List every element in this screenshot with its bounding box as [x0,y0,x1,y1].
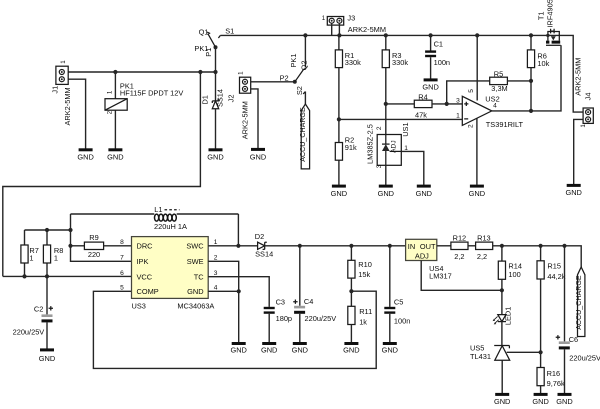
capacitor C5 100n [384,308,395,313]
node junction output-R6 [529,109,533,113]
svg-text:SWE: SWE [187,257,204,266]
wire R1 bottom to R2 [338,68,340,143]
svg-text:1: 1 [456,112,460,119]
svg-text:C5: C5 [394,297,403,306]
svg-text:3,3M: 3,3M [491,84,507,93]
svg-text:ARK2-5MM: ARK2-5MM [63,87,72,125]
svg-text:OUT: OUT [420,242,436,251]
svg-text:T1: T1 [537,11,546,20]
wire R10 top [350,246,352,260]
svg-text:R16: R16 [547,369,561,378]
ground C4 [292,344,308,355]
ground US5 [494,394,510,406]
svg-text:DRC: DRC [137,242,154,251]
svg-text:GND: GND [77,152,93,161]
wire C1 top [430,35,432,50]
svg-text:ACCU_CHARGE: ACCU_CHARGE [299,107,307,162]
wire R2 bottom to GND [338,160,340,185]
svg-text:J2: J2 [226,94,235,102]
connector J2 [240,77,251,93]
svg-text:GND: GND [187,287,203,296]
dashed marker of L1 [165,209,180,211]
connector J1 [56,66,68,84]
svg-text:GND: GND [331,189,347,198]
wire R15 bottom to R16 [540,279,542,368]
node junction R10-R11-feedback [349,289,353,293]
capacitor C2 220u/25V [42,314,53,322]
resistor R1 [335,50,342,68]
resistor R15 [537,261,544,279]
node junction R3-bus [384,33,388,37]
wire R11 bottom to GND [350,325,352,343]
wire US5 ref to R15-R16 [507,351,541,353]
wire R7 stubs [24,230,26,276]
LED LED1 [493,315,506,325]
ground C6 [556,394,572,406]
wire C6 bottom to GND [564,349,566,393]
wire D1 cathode [215,72,217,101]
resistor R11 [348,306,355,324]
node P1 pivot [214,45,218,49]
wire R10 bottom to R11 [350,278,352,306]
svg-text:TL431: TL431 [470,352,491,361]
svg-text:220u/25V: 220u/25V [569,354,600,363]
contact Q1 tick [207,32,210,34]
svg-text:100: 100 [508,270,520,279]
svg-text:VCC: VCC [137,273,153,282]
svg-text:47k: 47k [415,111,427,120]
diode D1 SS14 [212,99,218,109]
ground J2 [250,149,266,161]
wire R12-R13 [468,245,476,247]
capacitor C6 220u/25V [559,341,570,349]
ground R16 [532,394,548,406]
inductor L1 220uH 1A [155,214,177,221]
wire R9 right to DRC [104,245,132,247]
svg-text:2,2: 2,2 [477,252,487,261]
svg-text:LED1: LED1 [503,307,512,326]
svg-text:44,2k: 44,2k [547,272,565,281]
diode D2 SS14 [258,242,267,249]
wire op-amp power pin 5 [476,35,478,100]
node junction D2 line to R10 [349,244,353,248]
svg-text:L1: L1 [154,205,162,214]
wire J2 pin1 to P2 [251,81,295,83]
relay coil PK1 [105,99,127,111]
svg-text:6: 6 [120,270,124,277]
wire VCC rail to US3 [3,275,132,277]
wire C6 top [564,246,566,342]
wire R9 left [71,245,85,247]
svg-text:100n: 100n [394,316,410,325]
node junction bus to VCC feed [198,70,202,74]
resistor R8 [43,245,50,263]
svg-text:COMP: COMP [137,287,159,296]
wire R5 left loop [447,81,490,104]
svg-text:ACCU_CHARGE: ACCU_CHARGE [575,275,583,330]
switch arm P2 [295,70,304,82]
wire SWE down [208,261,239,342]
svg-text:SWC: SWC [186,242,204,251]
svg-text:GND: GND [250,152,266,161]
wire R15 top [540,246,542,261]
contact S1 tick [218,35,220,38]
svg-text:J1: J1 [50,86,59,94]
svg-text:US2: US2 [485,95,499,104]
svg-text:C3: C3 [276,297,285,306]
node junction C1-bus [429,33,433,37]
svg-text:C1: C1 [434,40,443,49]
svg-text:TC: TC [194,273,205,282]
node junction R8-C2-VCC rail [45,274,49,278]
wire C2 bottom to GND [46,322,48,348]
svg-text:US1: US1 [401,122,410,136]
svg-text:C4: C4 [304,297,313,306]
svg-text:ADJ: ADJ [390,140,397,152]
svg-text:S1: S1 [225,27,234,36]
svg-text:SS14: SS14 [255,249,273,258]
svg-text:GND: GND [494,397,510,406]
wire US4 ADJ down [421,261,502,291]
polarity plus of C6 [556,335,560,339]
svg-text:5: 5 [120,285,124,292]
ground J4 [565,185,581,197]
resistor R2 [335,143,342,161]
svg-text:TS391RILT: TS391RILT [486,120,524,129]
svg-text:GND: GND [532,397,548,406]
svg-text:IRF4905: IRF4905 [546,0,555,27]
op-amp US2 TS391RILT [462,96,492,125]
node junction bus-coil [113,70,117,74]
wire coil PK1 top [114,72,116,99]
node junction rail-R15 [539,244,543,248]
node junction bus-P1 [213,70,217,74]
wire op-amp output [492,45,561,111]
wire Q2 terminal to bus [304,35,306,67]
svg-text:D2: D2 [255,232,264,241]
wire J4 pin1 to GND [574,119,583,184]
svg-text:GND: GND [556,397,572,406]
node junction L1 left leg to R9 [68,244,72,248]
svg-text:P1: P1 [204,48,213,57]
svg-text:R10: R10 [358,260,372,269]
wire R5 right to R6 [507,80,531,82]
svg-text:Q1: Q1 [199,27,209,36]
wire J1 pin2 to GND [68,79,85,148]
svg-text:LM385Z-2.5: LM385Z-2.5 [366,124,375,164]
wire R8 stubs [46,230,48,276]
wire LED1 cathode to US5 [501,321,503,345]
wire SWC to D2 [208,245,257,247]
svg-text:SS14: SS14 [216,89,225,107]
svg-text:1: 1 [60,60,67,64]
svg-text:GND: GND [422,82,438,91]
polarity plus of C2 [49,306,53,310]
svg-text:LM317: LM317 [429,272,452,281]
ground D1 [207,150,223,162]
svg-text:ARK2-5MM: ARK2-5MM [240,101,249,139]
wire US5 anode to GND [501,360,503,393]
node junction L1 right leg to SWC [236,244,240,248]
wire C3 bottom to GND [268,314,270,343]
wire S2 to flag [304,92,306,105]
ground US1 pin3 [378,186,394,198]
node junction D2 line to C4 [298,244,302,248]
resistor R14 [498,261,505,279]
svg-text:GND: GND [292,346,308,355]
wire output rail to flag [493,246,582,267]
wire L1 rail [71,214,239,246]
ground C5 [382,344,398,355]
wire IPK from L1 leg [71,246,132,261]
svg-text:D1: D1 [200,95,209,104]
capacitor C4 220u/25V [294,306,305,314]
ground C3 [261,344,277,355]
svg-text:220u/25V: 220u/25V [305,314,337,323]
wire D2 cathode to US4 IN [265,245,406,247]
wire J1 pin1 to top bus [68,71,215,73]
node P2 pivot [293,80,297,84]
svg-text:J4: J4 [584,92,593,100]
svg-text:GND: GND [343,346,359,355]
capacitor C1 [425,52,436,56]
wire C5 bottom to GND [389,314,391,343]
svg-text:5: 5 [468,89,475,93]
net flag ACCU_CHARGE upper [299,104,310,169]
wire op-amp pin 2 to GND [476,113,478,185]
regulator US1 LM385Z-2.5 [377,135,401,166]
wire US1 pin3 to GND [385,165,387,185]
resistor R10 [348,260,355,278]
svg-text:ADJ: ADJ [415,252,429,261]
wire TC to C3 [208,277,269,307]
svg-text:IN: IN [408,242,415,251]
resistor R13 [476,242,493,249]
node junction D2 line to C5 [388,244,392,248]
svg-text:GND: GND [565,188,581,197]
svg-text:GND: GND [39,354,55,363]
regulator US4 LM317 body [406,239,437,260]
node junction R7-VCC rail [22,274,26,278]
svg-text:Q2: Q2 [300,61,309,71]
svg-text:S2: S2 [295,86,304,95]
svg-text:P2: P2 [280,74,289,83]
svg-text:91k: 91k [345,143,357,152]
svg-text:IPK: IPK [137,257,149,266]
svg-text:2,2: 2,2 [454,252,464,261]
svg-text:GND: GND [416,189,432,198]
svg-text:GND: GND [107,152,123,161]
svg-text:ARK2-5MM: ARK2-5MM [573,58,582,96]
wire J3 pin1 stub [331,23,333,35]
ground US1 pin1 [416,186,432,198]
ground R11 [343,344,359,355]
node junction J3-R1 on bus [337,33,341,37]
wire C4 bottom to GND [299,314,301,343]
node junction SWE-GND pin [237,289,241,293]
svg-text:C6: C6 [569,335,578,344]
svg-text:GND: GND [382,346,398,355]
svg-text:GND: GND [261,346,277,355]
node junction rail-C6 [562,244,566,248]
svg-text:8: 8 [120,239,124,246]
IC US3 MC34063A body [132,237,209,299]
svg-text:US3: US3 [132,301,146,310]
resistor R7 [21,245,28,263]
node junction R1-R2-inverting [337,117,341,121]
wire R4 right to noninverting input [432,103,463,105]
node junction R8 top [45,228,49,232]
wire R1 top [338,35,340,50]
resistor R4 [414,100,432,107]
wire S1 bus to T1 and J4 pin2 [220,35,583,112]
resistor R12 [451,242,468,249]
wire VCC feed down-left-down [3,72,201,276]
svg-text:330k: 330k [345,58,361,67]
connector J3 [327,17,343,26]
svg-text:GND: GND [230,346,246,355]
node junction R15-R16-ref [539,350,543,354]
node junction R6-bus [529,33,533,37]
polarity plus of C4 [293,300,297,304]
resistor R5 [490,77,508,84]
wire LED1 top [501,290,503,315]
svg-text:PK1: PK1 [289,54,298,68]
svg-text:GND: GND [207,152,223,161]
node junction rail-L1 leg [68,228,72,232]
resistor R6 [527,50,534,68]
wire C2 top [46,276,48,314]
svg-text:7: 7 [120,255,124,262]
svg-text:220uH 1A: 220uH 1A [154,222,187,231]
svg-text:220u/25V: 220u/25V [13,328,45,337]
svg-text:2: 2 [376,126,383,130]
ground PK1 coil [107,150,123,162]
wire C1 bottom to GND [430,57,432,78]
svg-text:ARK2-5MM: ARK2-5MM [348,25,386,34]
svg-text:R9: R9 [89,233,98,242]
node junction ADJ-R14-LED [500,288,504,292]
node junction Q2-bus [303,33,307,37]
svg-text:330k: 330k [392,58,408,67]
connector J4 [583,108,593,123]
wire R16 bottom to GND [540,386,542,394]
wire J2 pin2 to GND [251,89,258,148]
svg-text:1: 1 [29,254,33,263]
svg-text:R12: R12 [453,234,467,243]
resistor R3 [382,50,389,68]
ground US3 [230,344,246,355]
resistor R9 [84,242,103,249]
capacitor C3 180p [264,308,275,313]
wire R4 left [386,103,415,105]
svg-text:10k: 10k [537,59,549,68]
svg-text:GND: GND [469,189,485,198]
node junction R3-R4-US1 [384,102,388,106]
svg-text:180p: 180p [276,314,292,323]
svg-text:4: 4 [493,103,497,110]
node junction rail-R14 [500,244,504,248]
svg-text:C2: C2 [34,304,43,313]
svg-text:9,76k: 9,76k [547,379,565,388]
svg-text:220: 220 [88,250,100,259]
wire R14 bottom to ADJ node [501,279,503,290]
wire R6 top [530,35,532,50]
svg-text:R11: R11 [359,307,372,316]
svg-text:2: 2 [467,124,474,128]
transistor T1 IRF4905 [546,29,561,46]
shunt regulator US5 TL431 [494,346,510,361]
svg-text:3: 3 [376,164,383,168]
wire US1 pin1 to GND [401,151,424,185]
wire P1 pole [215,47,217,72]
ground C1 [422,80,438,91]
svg-text:3: 3 [456,97,460,104]
svg-text:MC34063A: MC34063A [177,301,214,310]
ground C2 [39,350,55,363]
wire R3 top [385,35,387,50]
node junction power-bus [475,33,479,37]
wire D1 anode to GND [215,109,217,149]
ground R2 [331,186,347,198]
ground US2 [469,186,485,198]
svg-text:1k: 1k [359,318,367,327]
resistor R16 [537,368,544,386]
wire coil PK1 bottom to GND [114,110,116,148]
wire lower top rail R7-R8-L1 [25,229,71,231]
wire US4 OUT to R12 [437,245,451,247]
svg-text:J3: J3 [347,13,355,22]
wire inverting input line [339,118,463,120]
svg-text:HF115F DPDT 12V: HF115F DPDT 12V [120,88,183,97]
node junction R4-R5 [445,102,449,106]
node junction R5-R6 [529,79,533,83]
contact S2 tick [303,92,305,94]
svg-text:1: 1 [54,254,58,263]
contact Q2 tick [303,68,306,69]
wire R6 bottom [530,68,532,111]
wire R14 top [501,246,503,261]
wire C4 top [299,246,301,306]
svg-text:R13: R13 [477,234,491,243]
switch arm S1 [208,34,216,48]
svg-text:15k: 15k [358,270,370,279]
ground J1 [77,150,93,162]
wire GND pin US3 [208,290,239,292]
svg-text:R5: R5 [494,69,503,78]
svg-text:R15: R15 [547,262,561,271]
wire COMP feedback loop [93,291,376,368]
net flag ACCU_CHARGE lower [575,267,585,337]
svg-text:100n: 100n [434,58,450,67]
svg-text:R4: R4 [418,92,427,101]
svg-text:GND: GND [378,189,394,198]
wire J3 pin2 stub [338,23,340,35]
wire R3 bottom to US1 [385,68,387,135]
wire C5 top [389,246,391,307]
